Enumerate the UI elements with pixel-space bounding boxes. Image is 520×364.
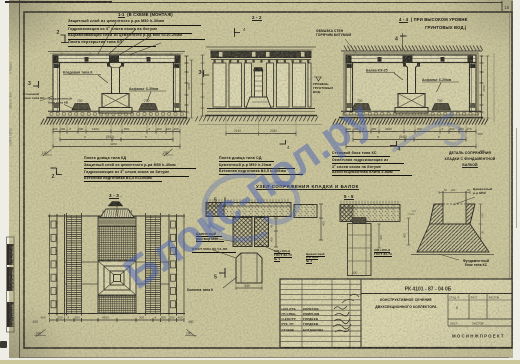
plan 3-3 title xyxy=(109,193,139,199)
roof slab joint block xyxy=(147,57,151,62)
section 4-4 right wall xyxy=(470,63,477,112)
section 4-4 ground hatch above xyxy=(344,46,483,51)
section 4-4 dimension row 2 xyxy=(353,138,466,142)
watermark circle scribbles xyxy=(192,168,307,253)
uzel roof slab right piece xyxy=(294,205,317,218)
scanner corner shadows xyxy=(9,0,79,60)
bottom-left corner blob xyxy=(0,341,7,348)
section 2-2 left vertical dimension xyxy=(201,55,205,116)
section 4-4 ground hatch below xyxy=(333,119,488,125)
foundation trapezoid body xyxy=(417,204,489,252)
left stamp outline xyxy=(7,237,15,332)
section 4-4 right vertical dimension xyxy=(480,56,484,118)
detail 5-5 dim 400 xyxy=(348,278,372,281)
cut marker 4 top of section 4-4 xyxy=(402,33,404,51)
scan top dark line xyxy=(5,1,112,3)
section 4-4 bitumen coating outline xyxy=(344,53,478,115)
wall block mark xyxy=(51,248,56,255)
note: protective layer xyxy=(84,163,196,169)
plan 3-3 central band top ladder strip xyxy=(98,217,136,226)
label: foundation block KS xyxy=(452,259,500,267)
uzel beam end blocks xyxy=(233,218,252,247)
inner right thin line xyxy=(509,12,511,280)
section 4-4 center column xyxy=(403,63,421,94)
section 2-2 ground line xyxy=(206,46,316,48)
section 4-4 dimension row 3 xyxy=(346,145,476,149)
callout: cement mortar (foundation) xyxy=(473,188,507,196)
callout: 300x100-A GOST 82-70 (detail 5-5) xyxy=(374,249,408,257)
detail 5-5 column xyxy=(353,218,367,224)
floor pad 700 xyxy=(352,104,371,111)
main title: uzel sopryazheniya kladki i balok xyxy=(256,184,396,190)
sheet number box 16 xyxy=(502,1,512,12)
floor pad 700 xyxy=(139,104,158,111)
dim extension lines xyxy=(53,133,180,148)
callout: roof slab type KP xyxy=(68,40,156,47)
uzel column (kolonna tip K) xyxy=(236,253,262,283)
detail 5-5 slab xyxy=(340,205,400,222)
title block column lines xyxy=(360,279,362,348)
roof slab bearing block xyxy=(175,56,181,62)
secondary right dim xyxy=(486,56,490,118)
section 1-1 title xyxy=(118,12,238,17)
secondary vertical dim xyxy=(190,60,194,118)
label: bitumen coat xyxy=(316,29,358,37)
section 4-4 title xyxy=(399,17,509,22)
section 4-4 roof slab xyxy=(346,55,476,63)
detail 5-5 vertical dim xyxy=(377,224,381,248)
floor pad 700 xyxy=(72,104,91,111)
roof slab bearing block xyxy=(53,56,59,62)
note: waterproofing xyxy=(84,169,189,177)
title: detail sopryazheniya xyxy=(434,151,506,155)
wall bearing blocks xyxy=(347,64,352,69)
section 2-2 center column xyxy=(254,68,264,72)
section 1-1 center column xyxy=(107,63,125,94)
note: glued waterproofing xyxy=(332,158,404,164)
foundation top dims xyxy=(439,191,470,194)
section 1-1 dimension row 2 xyxy=(60,138,173,142)
plan 3-3 column pyramid plan xyxy=(98,261,136,295)
callout: cement mortar M50 xyxy=(196,232,222,238)
title block row lines xyxy=(280,284,361,341)
callout: GOST anchor xyxy=(192,247,236,253)
plan 3-3 central mesh bottom xyxy=(98,296,136,314)
plan 3-3 central mesh top xyxy=(98,226,136,260)
foundation dim 30 xyxy=(479,224,483,238)
plan 3-3 dimension row xyxy=(50,318,185,322)
callout: protective layer xyxy=(68,19,201,26)
section 2-2 protective layer line xyxy=(209,48,313,50)
callout: cement M50 #4 xyxy=(306,253,340,264)
note: concrete prep xyxy=(84,176,162,182)
uzel vertical dim 49 xyxy=(274,218,278,247)
section 1-1 floor slab xyxy=(48,110,185,112)
roof slab joint block xyxy=(85,57,89,62)
section 4-4 ground line xyxy=(341,50,482,52)
plan 3-3 rebar ladder band xyxy=(66,213,68,316)
plan 3-3 bottom edge xyxy=(48,313,185,315)
section 1-1 footing base pad xyxy=(99,108,132,114)
plan 3-3 section A marker xyxy=(108,202,123,207)
plan 3-3 top cap xyxy=(100,209,134,218)
wall block mark xyxy=(51,221,56,228)
section 2-2 floor slab xyxy=(207,108,315,110)
section 1-1 column footing xyxy=(102,94,129,108)
left stamp dark cell xyxy=(7,244,14,265)
wall block mark xyxy=(51,234,56,241)
foundation ground line xyxy=(411,254,494,256)
callout: waterproofing xyxy=(68,26,192,34)
watermark: blue diagonal site text xyxy=(68,28,428,364)
note: wall block KS xyxy=(332,151,390,157)
label: kolonna tipa K xyxy=(187,288,227,292)
title block project name xyxy=(366,298,446,302)
scan sheet edges xyxy=(0,0,9,360)
section 2-2 dentil/anchor row xyxy=(211,59,311,61)
section 2-2 roof slab (dark band) xyxy=(211,51,311,58)
foundation socket xyxy=(443,203,466,205)
plan 3-3 right wall lines xyxy=(168,214,170,316)
floor pad 700 xyxy=(432,104,451,111)
section 1-1 ground line above roof xyxy=(48,51,185,53)
left stamp dark cell xyxy=(7,302,14,327)
title block outer box xyxy=(280,279,512,348)
section 1-1 right wall block xyxy=(174,63,181,112)
right margin scratch xyxy=(515,128,518,228)
note: concrete prep xyxy=(219,169,303,175)
section 1-1 ground hatch xyxy=(41,119,190,125)
wall block mark xyxy=(51,301,56,308)
scan left fold line xyxy=(19,0,20,358)
foundation dim 270 xyxy=(479,204,483,224)
section 1-1 roof slab xyxy=(53,55,180,63)
watermark tail flourish xyxy=(390,96,470,156)
uzel masonry left end (crosshatch) xyxy=(206,203,224,217)
ticks connecting ground line to roof xyxy=(62,52,171,56)
section 1-1 dimension row 1 xyxy=(53,130,180,134)
section 2-2 column footing xyxy=(246,97,271,108)
title block signature rows xyxy=(282,308,303,312)
plan 3-3 tie lines xyxy=(65,261,170,263)
left stamp dark cell xyxy=(7,267,14,291)
uzel dim 540 xyxy=(236,286,262,289)
scan bottom gray line xyxy=(20,357,509,358)
roof slab bearing block xyxy=(109,56,119,62)
label: groundwater level xyxy=(313,83,341,94)
section 4-4 floor slab xyxy=(341,110,481,112)
title block stadia table xyxy=(448,294,487,327)
leader lines from callouts xyxy=(90,20,170,56)
section 1-1 protective layer line xyxy=(50,52,183,54)
callout: leveling layer xyxy=(68,33,205,40)
section 2-2 title xyxy=(252,15,282,21)
section 1-1 dimension row 3 xyxy=(53,145,180,149)
note: asbestos plate xyxy=(332,170,412,176)
section 2-2 ground hatch xyxy=(195,116,318,121)
section 4-4 left wall xyxy=(346,63,353,112)
section 1-1 interior xyxy=(53,55,180,112)
detail 5-5 title xyxy=(344,194,370,200)
wall bearing blocks xyxy=(54,64,59,69)
signature squiggles xyxy=(333,306,351,332)
plan 3-3 top edge xyxy=(48,215,185,217)
wall block mark xyxy=(51,288,56,295)
wall block mark xyxy=(51,274,56,281)
title block doc number band xyxy=(361,293,512,295)
section 2-2 dimension row xyxy=(226,132,296,136)
callout: 300x100-A GOST 82-70 xyxy=(274,250,308,261)
note: cement mortar xyxy=(219,163,295,169)
uzel roof slab xyxy=(207,199,288,202)
uzel vertical dim 400 xyxy=(319,204,323,240)
section 4-4 dimension row 1 xyxy=(346,130,476,134)
note: bottom slab KD xyxy=(84,156,142,163)
wall block mark xyxy=(51,261,56,268)
section 2-2 wall panels xyxy=(213,63,226,107)
section 4-4 column footing xyxy=(398,94,425,108)
section 4-4 interior xyxy=(346,55,476,112)
plan 3-3 left wall lines xyxy=(49,214,51,316)
section 1-1 right vertical dimension xyxy=(185,56,189,118)
note: bottom slab SD xyxy=(219,156,274,163)
plan 3-3 rebar ladder band xyxy=(145,213,147,316)
foundation left dim 400 xyxy=(407,218,411,245)
label: wall block KS xyxy=(23,93,49,101)
section 1-1 left wall block xyxy=(53,63,60,112)
